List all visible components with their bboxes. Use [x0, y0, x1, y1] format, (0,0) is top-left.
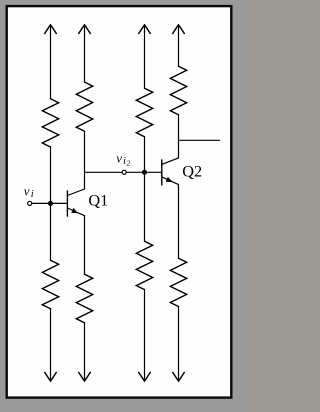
resistor R1 (rail1 upper) — [42, 99, 58, 147]
terminal v_i — [28, 201, 32, 205]
node dot rail1/base junction — [48, 201, 53, 206]
wire base lead Q1 — [30, 202, 68, 204]
wire rail3 middle — [144, 137, 146, 241]
wire rail1 middle — [50, 147, 52, 260]
page frame — [7, 6, 232, 398]
supply arrow up rail 2 — [79, 25, 91, 34]
supply arrow up rail 4 — [173, 25, 185, 34]
transistor Q2 — [162, 158, 179, 185]
wire rail3 top — [144, 25, 146, 88]
wire rail2 collector segment — [84, 131, 86, 189]
supply arrow down rail 1 — [45, 372, 57, 381]
supply arrow up rail 3 — [139, 25, 151, 34]
wire rail4 top — [178, 25, 180, 67]
resistor R6 (rail2 lower) — [76, 274, 92, 323]
wire rail2 top — [84, 25, 86, 82]
wire output tap — [179, 139, 220, 141]
wire rail2 emitter segment — [84, 216, 86, 275]
resistor R4 (rail4 upper) — [170, 66, 186, 115]
resistor R8 (rail4 lower) — [170, 258, 186, 306]
supply arrow up rail 1 — [45, 25, 57, 34]
wire rail2 bottom — [84, 323, 86, 381]
node dot rail3/base junction — [142, 170, 147, 175]
supply arrow down rail 4 — [173, 372, 185, 381]
resistor R3 (rail3 upper) — [136, 88, 152, 137]
wire rail4 emitter segment — [178, 185, 180, 259]
wire rail3 bottom — [144, 290, 146, 382]
transistor Q1 — [67, 189, 84, 216]
resistor R7 (rail3 lower) — [136, 241, 152, 289]
supply arrow down rail 2 — [79, 372, 91, 381]
wire rail1 bottom — [50, 309, 52, 381]
supply arrow down rail 3 — [139, 372, 151, 381]
wire rail4 bottom — [178, 307, 180, 382]
resistor R5 (rail1 lower) — [42, 260, 58, 309]
wire rail4 collector segment — [178, 115, 180, 158]
terminal v_i2 — [122, 170, 126, 174]
svg-text:Q2: Q2 — [182, 161, 202, 180]
wire interstage (collector Q1 to base Q2) — [85, 171, 162, 173]
wire rail1 top — [50, 25, 52, 99]
svg-text:Q1: Q1 — [88, 190, 108, 209]
resistor R2 (rail2 upper) — [76, 82, 92, 131]
